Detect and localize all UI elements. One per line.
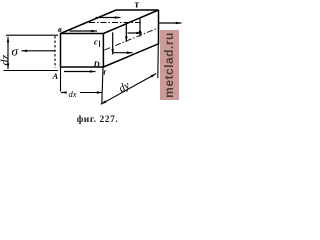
svg-text:dx: dx bbox=[69, 89, 77, 99]
svg-text:σ: σ bbox=[12, 44, 19, 59]
svg-text:dz: dz bbox=[0, 55, 12, 66]
svg-text:dy: dy bbox=[117, 79, 132, 95]
svg-text:с: с bbox=[94, 37, 98, 47]
svg-text:τ: τ bbox=[103, 67, 107, 77]
svg-text:τ: τ bbox=[135, 0, 140, 11]
svg-text:D: D bbox=[93, 59, 100, 69]
svg-text:А: А bbox=[52, 71, 59, 81]
svg-text:в: в bbox=[58, 24, 62, 34]
